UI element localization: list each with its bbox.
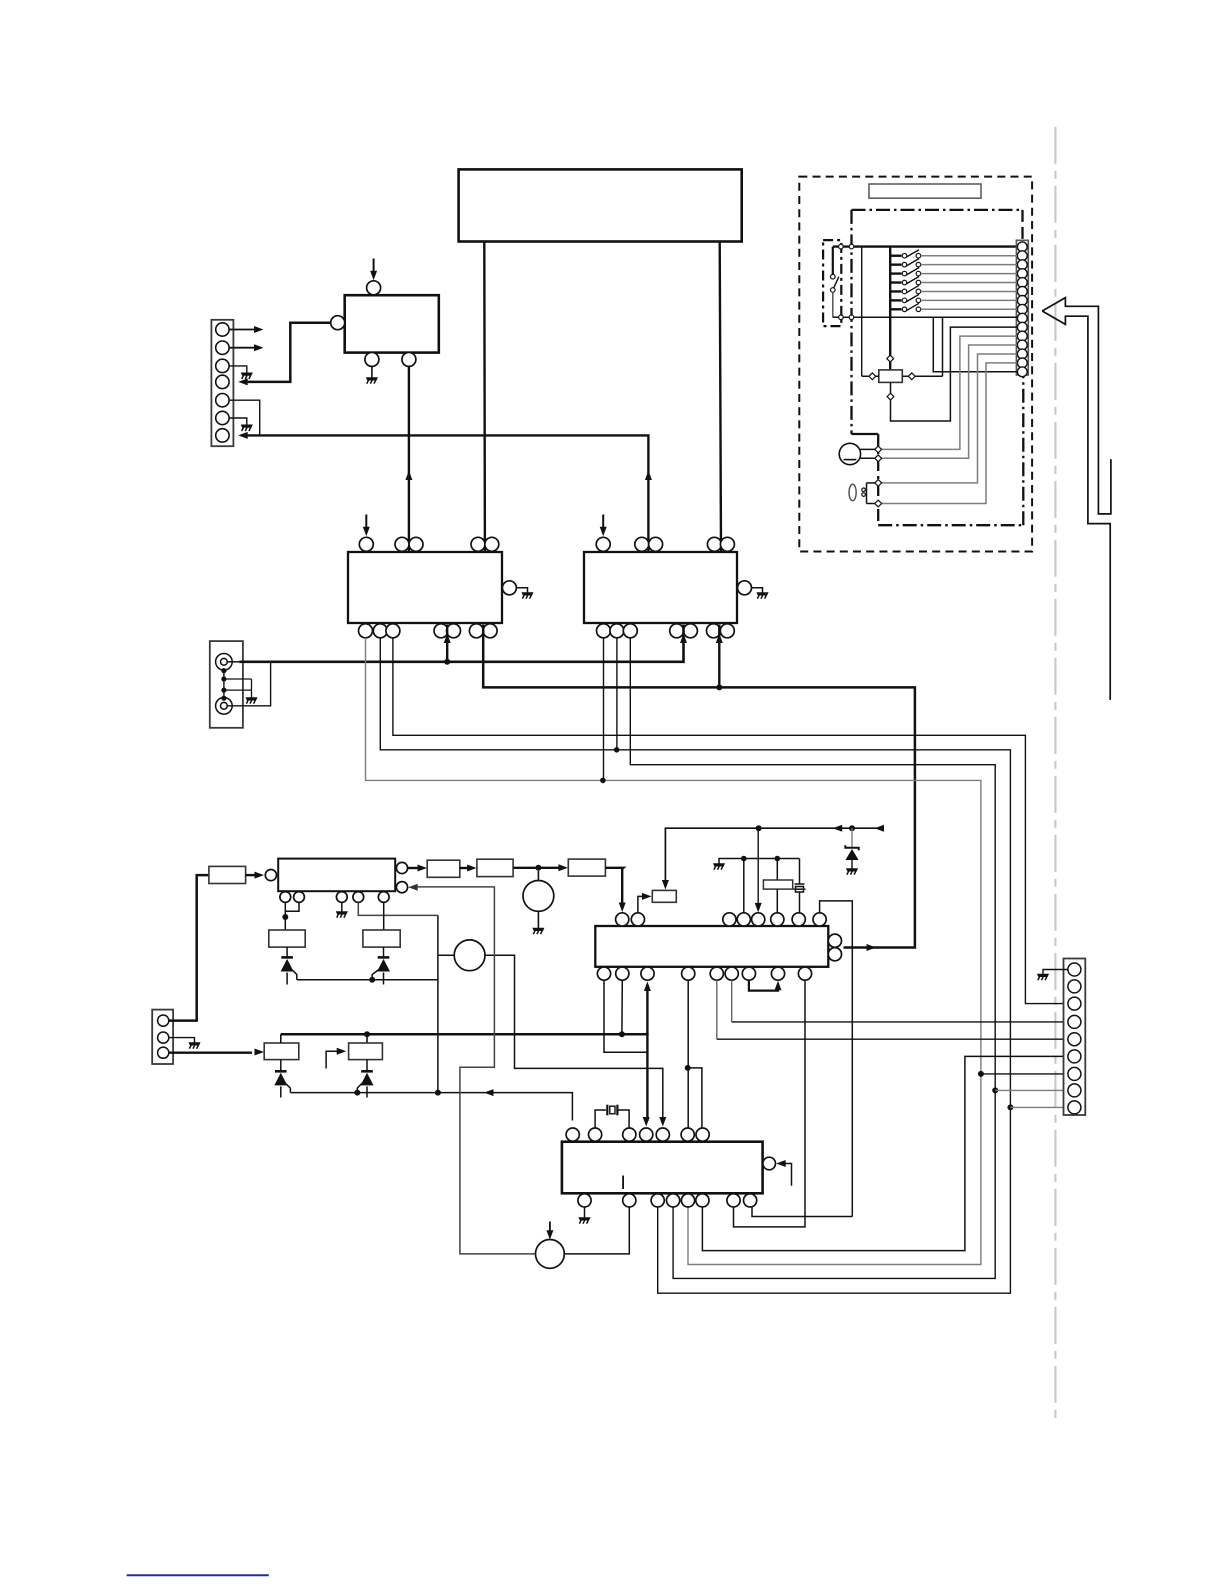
crystal X1 symbol — [607, 1105, 617, 1116]
wire CN5 pin1 to ground — [1043, 970, 1068, 975]
pin U7 bottom 8 — [771, 967, 784, 980]
switch S4 row — [890, 272, 901, 274]
pin U5 bottom 4 — [353, 892, 364, 903]
arrow down into U6 top pin5 — [659, 1117, 666, 1127]
resistor R5 — [264, 1043, 299, 1060]
wire VR1 right lead to U6 pin arrow — [485, 955, 663, 1120]
diode D2 anode dangling lead — [366, 1086, 368, 1097]
pin U7 top 1 — [616, 913, 629, 926]
wire MIC1 top to CN4 pin11 (grey) — [878, 336, 1017, 449]
pin U6 bottom 8 — [744, 1194, 757, 1207]
power arrow above U3 — [365, 515, 367, 529]
pin U7 top 7 — [792, 913, 805, 926]
diode D1 bent lead to net — [286, 1084, 291, 1093]
wire U3 right pin to ground — [516, 588, 527, 593]
junction dot rail to X2 — [775, 856, 781, 862]
junction dot under U5 pin1 — [282, 914, 288, 920]
ground under U6 — [579, 1218, 590, 1224]
connector CN4 pin 7 — [1017, 296, 1027, 306]
wire LP1 bottom lead — [867, 503, 879, 505]
wire into CN5 pin9 (grey) — [1010, 1106, 1068, 1108]
wire diode net horizontal — [297, 979, 438, 981]
wire RB1 right lead — [902, 375, 942, 377]
pin U3 right side — [502, 581, 516, 595]
wire U2 left pin to connector CN1 pin4 — [245, 323, 331, 382]
wire R5 to D1 — [280, 1060, 282, 1072]
junction dot on 687 line at U4 branch — [716, 684, 722, 690]
switch S3 row — [890, 263, 901, 265]
pin U7 top 4 — [737, 913, 750, 926]
switch S2 row — [890, 255, 901, 257]
wire U7 bottom pin9 down to U6 pin7 — [734, 980, 806, 1227]
connector CN4 pin 13 — [1017, 349, 1027, 359]
wire LP1 top to CN4 pin13 (grey) — [878, 354, 1017, 483]
resistor RB1 in remote unit — [879, 370, 903, 383]
wire RB1 left lead — [862, 375, 879, 377]
ground at CN1 pin6 — [241, 425, 252, 431]
ground at CN3 pin2 — [189, 1043, 200, 1049]
pin U7 bottom 9 — [798, 967, 811, 980]
wire MIC1 top lead — [860, 448, 878, 450]
ground under U2 — [366, 378, 377, 384]
connector CN1 pin 7 — [216, 429, 229, 442]
junction dot D2 on net — [354, 1090, 360, 1096]
switch SW1 lower lead (grey) — [832, 292, 834, 317]
wire R4 down into IC3 pin with arrow — [605, 868, 623, 905]
diode D3 triangle — [281, 959, 294, 972]
block U1 (top system control block) — [459, 169, 742, 241]
switch SW1 upper lead — [832, 247, 834, 275]
wire R5 top to thick bus — [280, 1034, 282, 1043]
connector CN3 pin1 — [158, 1015, 169, 1026]
pin pair U3 top in1 — [395, 537, 409, 551]
connector CN5 pin 8 — [1068, 1084, 1081, 1097]
diode D4 bent lead to net — [372, 970, 379, 980]
connector CN3 pin3 — [158, 1047, 169, 1058]
wire stub into U6 right pin with left arrow — [780, 1164, 792, 1186]
wire xtal rail with ground — [719, 859, 800, 864]
pin U6 top 6 — [681, 1128, 694, 1141]
pin U2 bottom-right — [402, 352, 416, 366]
wire S2 to CN4 pin 2 (grey) — [921, 255, 1017, 257]
wire R7 to D4 — [383, 947, 385, 957]
connector CN4 pin 8 — [1017, 304, 1027, 314]
connector CN4 pin 6 — [1017, 287, 1027, 297]
main bus in remote unit to CN4 pin1 — [833, 245, 1017, 247]
connector CN4 pin 12 — [1017, 340, 1027, 350]
pin U5 bottom 1 — [280, 892, 291, 903]
stray mark inside U6 — [622, 1176, 624, 1190]
wire ZD1 to ground — [851, 860, 853, 869]
wire LP1 top lead — [867, 482, 879, 484]
diamond RB1 right — [908, 373, 915, 380]
wire R1 to mixer input with arrow — [246, 874, 257, 876]
wire bus vertical to U6 with arrows both ends — [646, 988, 648, 1122]
wire LP1 bottom to CN4 pin14 (grey) — [878, 363, 1017, 504]
connector CN4 pin 1 — [1017, 242, 1027, 252]
wire branch up into U4 bottom pair 5 with arrow — [718, 625, 720, 688]
wire CN2 shield link — [223, 668, 225, 700]
wire VCO feedback loop to U5 fb pin with arrow (grey) — [417, 887, 536, 1254]
wire into CN5 pin8 (grey) — [995, 1089, 1068, 1091]
connector CN5 pin 3 — [1068, 997, 1081, 1010]
wire U4.b1 down to joint — [603, 638, 605, 780]
junction dots on CN2 shield link — [221, 668, 226, 673]
connector CN1 pin 1 — [216, 323, 229, 336]
diamond under RB1 — [887, 393, 894, 400]
zener ZD1 triangle — [845, 849, 858, 860]
wire pin9 row branch down to CN4 pin15 — [933, 317, 1017, 372]
connector CN5 pin 2 — [1068, 980, 1081, 993]
power arrow into U2 top pin — [373, 259, 375, 273]
diode D3 anode dangling lead — [286, 973, 288, 985]
pin U7 bottom 6 — [725, 967, 738, 980]
pin U6 top 7 — [696, 1128, 709, 1141]
jack CN2-A outer — [216, 654, 233, 671]
pin U7 bottom 2 — [616, 967, 629, 980]
pin U3 bottom 1 — [359, 624, 373, 638]
wire bus tap down to RB1 left — [861, 247, 863, 377]
wire rail to crystal X2 — [776, 859, 778, 881]
microphone MIC1 inner bar — [844, 459, 857, 461]
jack CN2-B outer — [216, 698, 233, 715]
wire U2 bottom-right pin down to IC1 pin pair, arrow up — [408, 366, 410, 551]
wire branch up into U3 bottom pair 4 — [446, 625, 448, 662]
resistor R4 — [568, 859, 605, 876]
connector CN5 pin 1 — [1068, 963, 1081, 976]
wire S7 to CN4 pin 7 (grey) — [921, 299, 1017, 301]
wire osc OSC1 feed — [537, 871, 539, 881]
block U5 (mixer/IF block) — [278, 859, 395, 892]
pin U5 bottom 2 — [294, 892, 305, 903]
junction dot audio bus at IC1 branch — [444, 659, 450, 665]
wire MIC1 bottom to CN4 pin12 (grey) — [878, 345, 1017, 458]
pin U2 top — [367, 281, 381, 295]
pin U3 bottom 2 — [373, 624, 387, 638]
wire thick from U3 pair5 down-right to IC3 right pin — [483, 625, 915, 948]
connector CN2 body (RCA jacks) — [210, 641, 243, 728]
connector CN1 pin 6 — [216, 411, 229, 424]
switch SW1 upper contact — [831, 274, 836, 279]
jack CN2-A inner — [221, 658, 228, 665]
wire CN1 pin6 to ground — [229, 418, 247, 425]
connector CN1 pin 5 — [216, 394, 229, 407]
pin U5 right fb — [396, 882, 407, 893]
wire net U3.b1/U4.b1 to CN5 pin7 and U6 (grey) — [366, 638, 981, 1265]
connector CN5 body (9-pin) — [1064, 959, 1086, 1116]
connector CN4 body (15-pin) — [1016, 240, 1028, 375]
pin pair U4 top in1 — [635, 537, 649, 551]
wire bottom staircase to U6 pin8 — [752, 1207, 852, 1217]
jack CN2-B inner — [221, 702, 228, 709]
pin U6 top 2 — [589, 1128, 602, 1141]
wire X2 to U7 top pin6 — [776, 889, 778, 913]
pin U5 bottom 5 — [378, 892, 389, 903]
power arrow into VCO — [549, 1222, 551, 1233]
ground on xtal rail — [713, 864, 724, 870]
ground under U5 pin3 — [336, 912, 347, 918]
ground at CN5 pin1 — [1037, 974, 1048, 980]
pin U7 top 3 — [723, 913, 736, 926]
trimmer capacitor C1 — [794, 884, 806, 892]
IC U6 body (bottom) — [562, 1142, 763, 1194]
connector CN3 body (3-pin) — [152, 1010, 173, 1064]
wire U6 pin6 staircase to CN5 pin6 — [702, 1056, 1068, 1250]
diode D1 anode dangling lead — [280, 1086, 282, 1097]
connector CN4 pin 15 — [1017, 367, 1027, 377]
wire jog to U6 top pin7 — [688, 1068, 702, 1128]
ground at CN1 pin3 — [241, 373, 252, 379]
junction dot net to CN5 pin7 — [978, 1071, 984, 1077]
wire R3 to R4 with arrow and osc tap — [513, 867, 560, 869]
connector CN1 pin 2 — [216, 341, 229, 354]
wire rail down into U7 pin5 with arrow — [757, 828, 759, 906]
wire CN3 pin2 to ground — [169, 1038, 195, 1043]
junction dot rail to U7 pin5 — [756, 825, 762, 831]
wire U2 bottom-left pin to ground — [371, 366, 373, 377]
lamp LP1 coil circles — [862, 488, 866, 492]
diode D3 bent lead to net — [292, 970, 297, 980]
diode D4 under R7 (cathode bar) — [378, 956, 390, 959]
junction dot net to CN5 pin8 — [992, 1087, 998, 1093]
wire U7 pin5 down (grey) — [716, 980, 718, 1039]
arrow up into U4 bottom pair 4 — [680, 634, 687, 644]
dash-dot pcb boundary top edge — [852, 209, 1023, 211]
wire U5 pin5 down to R7 — [383, 902, 385, 930]
diamond RB1 left — [869, 373, 876, 380]
diode D1 under R5 (cathode bar) — [275, 1070, 287, 1073]
wire R6 to D3 — [286, 947, 288, 957]
page fold dash-dot line — [1054, 127, 1056, 1422]
switch S7 row — [890, 299, 901, 301]
crystal X1 left lead — [595, 1110, 606, 1128]
wire CN1 pin1 output with right arrow — [229, 329, 256, 331]
diamond LP1 top on boundary — [875, 480, 882, 487]
pin U7 right 2 — [828, 948, 841, 961]
wire switch-bottom row to CN4 pin9 — [833, 316, 1017, 318]
IC U4 body (right) — [584, 552, 737, 623]
wire S3 to CN4 pin 3 (grey) — [921, 264, 1017, 266]
junction dot rail to zener ZD1 — [849, 825, 855, 831]
wire rail to zener ZD1 (grey) — [851, 828, 853, 847]
pin U3 top power — [359, 537, 373, 551]
IC U7 body (mid-right) — [595, 926, 828, 967]
pin U6 right side — [763, 1157, 776, 1170]
pin U7 top 8 — [813, 913, 826, 926]
pin U6 bottom 3 — [651, 1194, 664, 1207]
power arrow above U4 — [602, 515, 604, 529]
pin pair U4 top in2 — [707, 537, 721, 551]
pin U7 bottom 4 — [682, 967, 695, 980]
diode D4 triangle — [377, 959, 390, 972]
wire U7 top pin8 over to down-bus — [820, 901, 853, 1217]
diamond LP1 bottom on boundary — [875, 500, 882, 507]
pin U7 top 6 — [771, 913, 784, 926]
connector CN4 pin 4 — [1017, 269, 1027, 279]
ground under ZD1 — [846, 869, 857, 875]
ground under OSC1 — [533, 928, 544, 934]
connector CN5 pin 7 — [1068, 1067, 1081, 1080]
wire CN3 pin3 to R5 with arrow — [169, 1051, 252, 1053]
connector CN1 pin 4 — [216, 375, 229, 388]
block U2 (top-left regulator block) — [345, 295, 439, 352]
pin U6 bottom 7 — [727, 1194, 740, 1207]
pin U6 bottom 2 — [623, 1194, 636, 1207]
pin pair U4 bottom 5 — [707, 624, 721, 638]
junction dot net to CN5 pin9 — [1007, 1104, 1013, 1110]
pin U6 top 4 — [640, 1128, 653, 1141]
wire bus from IC2 to CN1 pin7 with left arrow — [245, 435, 648, 551]
dash-dot pcb boundary left-lower edge — [877, 434, 879, 525]
wire into CN5 pin4 — [732, 1021, 1068, 1023]
blue underline at page bottom — [127, 1574, 269, 1576]
pin U7 top 2 — [631, 913, 644, 926]
pin U6 bottom 5 — [681, 1194, 694, 1207]
pin U7 bottom 1 — [597, 967, 610, 980]
arrow on IC3 output wire — [867, 944, 877, 951]
pin U2 bottom-left — [365, 352, 379, 366]
pin U7 top 5 — [752, 913, 765, 926]
wire U7 pin6 down (grey) — [731, 980, 733, 1022]
wire rail to U7 top pin4 — [743, 859, 745, 913]
switch S6 row — [890, 290, 901, 292]
diode D2 bent lead to net — [357, 1083, 362, 1093]
wire CN3 pin1 up to resistor R1 — [169, 875, 209, 1021]
big page-reference arrow (lower outline) — [1042, 311, 1110, 700]
ground at CN2 — [246, 698, 257, 704]
potentiometer VR1 circle — [454, 940, 485, 971]
thick bus to U6 top pin4 — [281, 1033, 648, 1034]
wire S5 to CN4 pin 5 (grey) — [921, 282, 1017, 284]
wire rail corner to trimmer C1 — [799, 859, 801, 885]
pin U4 bottom 2 — [610, 624, 624, 638]
junction dot IC3 pin2 to bus — [619, 1031, 625, 1037]
crystal X2 box — [763, 880, 792, 889]
connector CN5 pin 4 — [1068, 1015, 1081, 1028]
connector CN4 pin 10 — [1017, 322, 1027, 332]
wire CN1 pin2 output with right arrow — [229, 347, 256, 349]
pin U5 right out — [396, 862, 407, 873]
wire VR2 top to bus — [366, 1034, 368, 1043]
dash-dot pcb boundary right edge lower — [1022, 377, 1024, 525]
connector CN5 pin 5 — [1068, 1033, 1081, 1046]
feedthrough circle on bus at switch box edge — [839, 244, 844, 249]
label strip inside dashed box — [869, 184, 981, 198]
junction dot net A on zener net — [435, 1090, 441, 1096]
connector CN4 pin 11 — [1017, 331, 1027, 341]
dash-dot pcb boundary bottom edge — [878, 524, 1023, 526]
wire net U4.b3 to CN5 pin8 and U6 — [630, 638, 995, 1279]
VCO circle — [536, 1240, 565, 1269]
wire U4 right pin to ground — [752, 588, 763, 593]
switch S8 row — [890, 308, 901, 310]
wire CN1 pin5 joining pin7 bus — [229, 400, 260, 435]
wire pin9 row branch down to RB1 right — [942, 317, 944, 376]
diode D4 anode dangling lead — [383, 973, 385, 985]
resistor R1 — [209, 866, 246, 883]
wire U7 pin4 down to U6 top pins — [687, 980, 689, 1128]
dash-dot pcb boundary jog — [852, 433, 879, 435]
connector CN1 pin 3 — [216, 359, 229, 372]
junction dot VR2 top — [364, 1031, 370, 1037]
wire U1 right output down to IC2 pin pair — [720, 242, 721, 552]
feedthrough circle on pin9 row at switch box edge — [839, 315, 844, 320]
pin U4 bottom 3 — [623, 624, 637, 638]
pin U7 bottom 5 — [710, 967, 723, 980]
pin U4 bottom 1 — [597, 624, 611, 638]
wire VR2 to D2 — [366, 1060, 368, 1072]
dash-dot pcb boundary right edge upper — [1021, 210, 1023, 240]
wire CN2 shield taps to ground — [224, 678, 252, 680]
wire U6 pin2 to VCO right lead — [564, 1207, 629, 1254]
resistor R7 — [363, 930, 400, 947]
wire S8 to CN4 pin 8 (grey) — [921, 308, 1017, 310]
connector CN4 pin 3 — [1017, 260, 1027, 270]
switch S5 row — [890, 281, 901, 283]
pin U6 bottom 4 — [667, 1194, 680, 1207]
wire U1 left output down to IC1 pin pair — [483, 242, 486, 552]
junction dot on diode net — [369, 977, 375, 983]
wire into CN5 pin7 — [981, 1073, 1068, 1075]
wire CN1 pin3 to ground — [229, 366, 247, 373]
wire U5 bottom pins 1+2 join — [285, 902, 299, 911]
connector CN4 pin 14 — [1017, 358, 1027, 368]
diode D2 triangle — [361, 1073, 374, 1086]
pin U7 bottom 3 — [641, 967, 654, 980]
resistor R3 — [477, 859, 513, 876]
wire IC3 bottom pin1 joining bus vertical — [604, 980, 647, 1052]
diode D2 under VR2 (cathode bar) — [361, 1070, 373, 1073]
diamond junction above RB1 — [887, 355, 894, 362]
microphone MIC1 circle — [839, 443, 860, 464]
pin pair U3 top in2 — [471, 537, 485, 551]
IC U3 body (left) — [348, 552, 502, 623]
wire U5 pin4 to vertical net A — [358, 902, 438, 915]
lamp LP1 bulb — [849, 484, 856, 500]
dashed enclosure box (remote unit) — [799, 177, 1032, 552]
wire U6 pin ground — [584, 1207, 586, 1218]
junction dot rail to U7 pin4 — [741, 856, 747, 862]
wire U5 out to R2 with arrow — [408, 867, 420, 869]
wire net U3.b2/U4.b2 to CN5 pin9 and U6 (thin) — [380, 638, 1010, 1293]
pin U6 top 5 — [656, 1128, 669, 1141]
pin U6 top 3 — [623, 1128, 636, 1141]
arrow up on IC2 to CN1 wire — [645, 471, 652, 481]
potentiometer VR2 box — [349, 1043, 383, 1060]
wire U4.b2 down to joint — [616, 638, 618, 750]
diode D1 triangle — [274, 1073, 287, 1086]
ground at U4 right pin — [757, 593, 768, 599]
feedthrough circle on bus at pcb edge — [849, 244, 854, 249]
wire VR1 left lead — [438, 954, 454, 956]
pin pair U3 bottom 5 — [469, 624, 483, 638]
junction dot where U4.b1 joins — [600, 778, 606, 784]
junction dot split to U6 pin7 — [685, 1065, 691, 1071]
wire S4 to CN4 pin 4 (grey) — [921, 273, 1017, 275]
wire power rail y828 with left arrows — [665, 828, 877, 884]
wire R2 to R3 with arrow — [460, 867, 469, 869]
pin pair U4 bottom 4 — [670, 624, 684, 638]
connector CN3 pin2 — [158, 1032, 169, 1043]
wire C1 to U7 top pin7 — [799, 892, 801, 913]
wire local loop U7 pin7 to pin8 with arrow — [749, 980, 778, 990]
lamp LP1 leads — [866, 483, 868, 504]
wire into CN5 pin5 — [717, 1038, 1068, 1040]
ground at U3 right pin — [522, 593, 533, 599]
pin U6 bottom 6 — [696, 1194, 709, 1207]
resistor R8 — [652, 890, 676, 902]
wire MIC1 bottom lead — [860, 457, 878, 459]
